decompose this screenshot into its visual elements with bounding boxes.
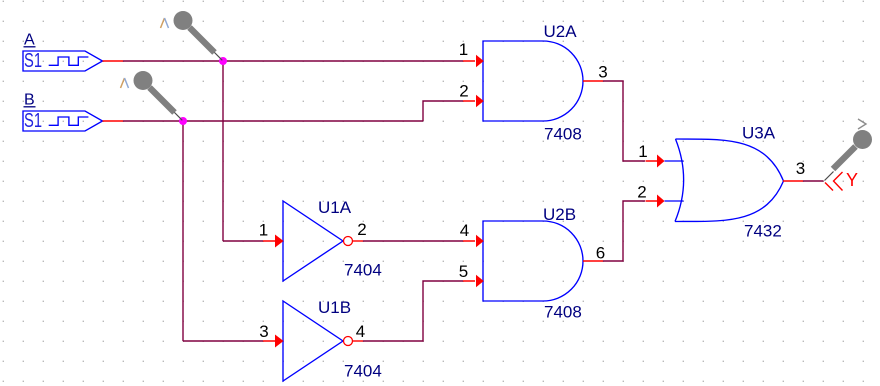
wire: A tag output stub (red): [103, 60, 124, 62]
U2B pin5 arrow: [463, 275, 484, 287]
wire: B horizontal: [123, 120, 423, 122]
U2A pin1 arrow: [463, 55, 484, 67]
wire: B to U1B input: [183, 340, 263, 342]
junction node B: [179, 117, 187, 125]
node label B: [24, 92, 36, 109]
AND gate U2B (7408) body: [483, 221, 583, 301]
AND gate U2A (7408) body: [483, 41, 583, 121]
svg-text:5: 5: [459, 262, 468, 281]
wire: A to U1A input: [223, 240, 263, 242]
svg-text:2: 2: [459, 82, 468, 101]
svg-text:B: B: [24, 92, 35, 109]
svg-text:1: 1: [459, 40, 468, 59]
svg-text:1: 1: [259, 221, 268, 240]
U1A output bubble: [344, 237, 353, 246]
svg-text:3: 3: [598, 63, 607, 82]
probe Y chevron indicator: [825, 172, 843, 191]
svg-text:S1: S1: [24, 109, 42, 132]
wire: B vertical drop: [182, 121, 184, 341]
wire: U1A output to U2B pin4: [363, 240, 463, 242]
U3A pin1 arrow: [646, 155, 665, 168]
svg-text:1: 1: [638, 142, 647, 161]
wire: U2B output to U3A pin2: [603, 201, 645, 261]
input A (S1) tag symbol: [23, 51, 103, 71]
input B (S1) tag symbol: [23, 111, 103, 131]
svg-text:2: 2: [637, 183, 646, 202]
NOT gate U1B (7404) body: [283, 301, 343, 381]
OR gate U3A (7432) body: [665, 139, 784, 222]
U1B output bubble: [344, 337, 353, 346]
svg-text:7408: 7408: [544, 303, 582, 322]
svg-text:7404: 7404: [344, 362, 382, 381]
svg-text:U2B: U2B: [543, 205, 576, 224]
svg-text:6: 6: [596, 244, 605, 263]
wire: B tag output stub (red): [103, 120, 124, 122]
wire: output Y: [803, 180, 824, 182]
U3A pin2 arrow: [646, 195, 665, 208]
svg-text:Y: Y: [846, 170, 858, 190]
wire: U2B output stub (red): [583, 260, 603, 262]
probe on node B: [134, 71, 183, 120]
probe on node A: [174, 11, 223, 60]
probe A caret indicator: [161, 18, 169, 28]
probe on output Y: [825, 130, 873, 181]
U2B pin4 arrow: [463, 235, 484, 247]
wire: U2A output to U3A pin1: [603, 81, 645, 161]
svg-text:U3A: U3A: [742, 124, 776, 143]
junction node A: [219, 57, 227, 65]
wire: U1B output riser to U2B pin5: [363, 281, 463, 341]
U2A pin2 arrow: [463, 95, 484, 107]
wire: A horizontal to U2A pin1: [123, 60, 463, 62]
wire: U3A output stub (red): [783, 180, 803, 182]
svg-text:U2A: U2A: [544, 22, 578, 41]
U1A input pin arrow: [263, 235, 284, 248]
probe B caret indicator: [121, 78, 129, 88]
svg-text:7404: 7404: [344, 261, 382, 280]
NOT gate U1A (7404) body: [283, 201, 343, 281]
svg-text:4: 4: [356, 322, 365, 341]
node label A: [24, 32, 36, 49]
svg-text:S1: S1: [24, 49, 42, 72]
probe Y greater-than indicator: [858, 119, 866, 129]
U1B input pin arrow: [263, 335, 284, 348]
wire: B riser to U2A pin2: [423, 101, 463, 121]
svg-text:U1A: U1A: [318, 198, 352, 217]
wire: A vertical drop: [222, 61, 224, 241]
wire: U1B bubble stub (red): [353, 340, 364, 342]
wire: U2A output stub (red): [583, 80, 603, 82]
wire: U1A bubble stub (red): [353, 240, 364, 242]
svg-text:U1B: U1B: [318, 298, 351, 317]
svg-text:7432: 7432: [744, 222, 782, 241]
svg-text:7408: 7408: [544, 125, 582, 144]
svg-text:4: 4: [460, 221, 469, 240]
svg-text:3: 3: [259, 322, 268, 341]
svg-text:3: 3: [796, 159, 805, 178]
svg-text:2: 2: [357, 220, 366, 239]
svg-text:A: A: [24, 32, 35, 49]
